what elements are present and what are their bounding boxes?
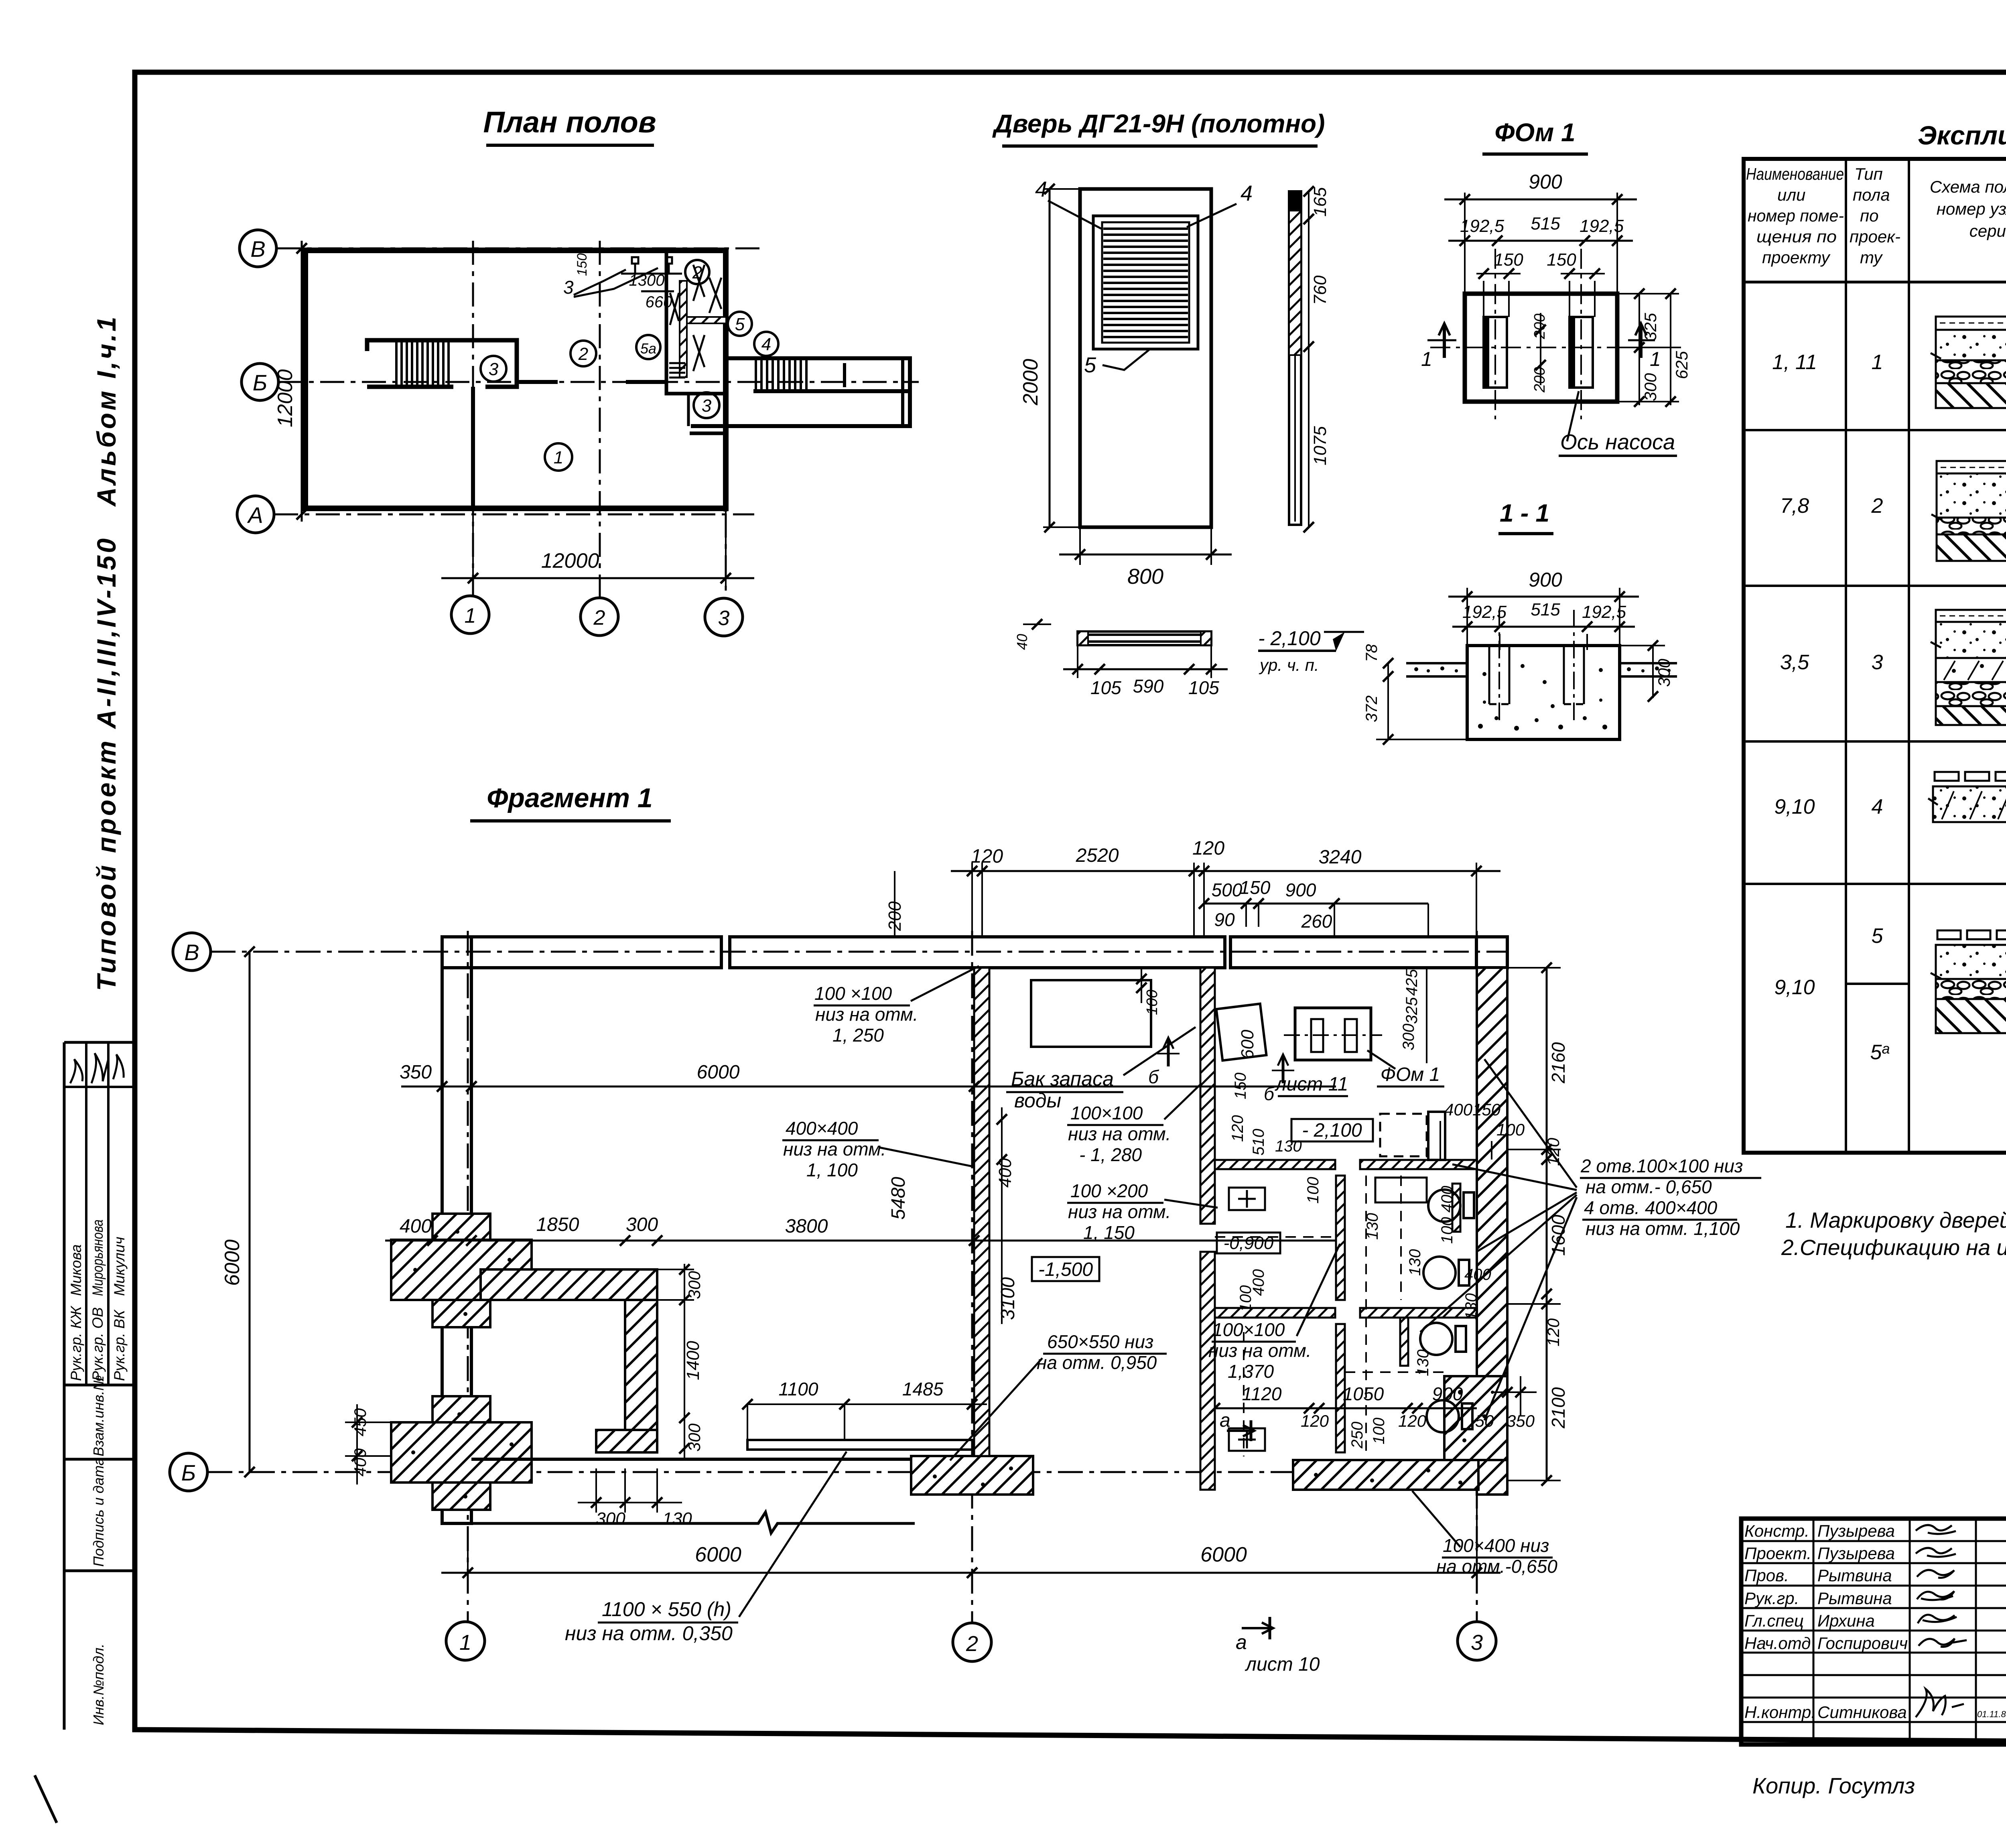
svg-text:В: В [184,940,199,965]
axis dash-dot lines [274,241,919,599]
left margin rotated project label [91,315,121,991]
svg-text:на отм. 0,950: на отм. 0,950 [1037,1352,1157,1373]
svg-text:3: 3 [489,359,499,379]
dims 1100 1485 [747,1403,987,1405]
svg-text:а: а [1236,1631,1247,1653]
svg-text:2: 2 [593,606,605,630]
louver panel [1093,216,1198,349]
svg-text:1, 11: 1, 11 [1772,351,1817,374]
svg-text:низ на отм.: низ на отм. [815,1004,918,1025]
second dim row 500 150 900 [1204,903,1428,905]
svg-text:проек-: проек- [1850,227,1900,246]
svg-text:6000: 6000 [697,1062,740,1083]
right extension corridor [691,358,910,426]
boxed level marks [1291,1119,1373,1141]
a -> list 10 [1242,1617,1273,1639]
svg-text:150: 150 [575,253,590,276]
svg-text:В: В [250,236,265,262]
schema row2 [1931,461,2006,561]
svg-text:1: 1 [554,448,563,467]
svg-text:90: 90 [1214,909,1235,930]
svg-text:Рук.гр. ВК: Рук.гр. ВК [111,1309,128,1381]
bottom dim 12000 [472,508,474,590]
sanitary partitions [1215,1160,1477,1452]
svg-text:ур. ч. п.: ур. ч. п. [1259,656,1319,674]
svg-text:а: а [1220,1410,1230,1431]
svg-text:800: 800 [1127,565,1163,589]
svg-text:105: 105 [1188,677,1219,698]
svg-text:400: 400 [400,1216,432,1237]
svg-text:100 ×100: 100 ×100 [814,983,892,1004]
svg-text:300: 300 [1641,373,1660,401]
column 2 wall [974,968,989,1456]
svg-text:4: 4 [1872,795,1883,818]
left vertical dim 6000 [249,952,251,1472]
dim 192.5 515 192.5 [1448,240,1633,242]
svg-text:Схема пола или: Схема пола или [1930,177,2006,196]
svg-text:1: 1 [465,604,476,628]
svg-text:120: 120 [1229,1115,1247,1142]
svg-text:6000: 6000 [695,1543,741,1566]
svg-text:Наименование: Наименование [1746,164,1844,183]
svg-text:Б: Б [253,370,267,395]
sanitary bottom band [1293,1460,1478,1490]
svg-text:1: 1 [1650,348,1661,370]
svg-text:- 2,100: - 2,100 [1302,1120,1362,1141]
bottom sill section [1078,632,1211,645]
signatures [1916,1525,1967,1717]
svg-text:-1,500: -1,500 [1038,1259,1093,1280]
pilaster cross lower [391,1396,532,1510]
svg-text:3: 3 [1872,651,1883,674]
svg-text:Рук.гр. КЖ: Рук.гр. КЖ [68,1306,84,1381]
svg-text:5480: 5480 [888,1177,909,1220]
svg-text:510: 510 [1250,1129,1267,1156]
svg-text:5: 5 [1084,353,1096,377]
svg-text:2000: 2000 [1019,359,1042,406]
svg-text:300: 300 [685,1271,704,1299]
svg-text:100: 100 [1237,1285,1255,1312]
svg-text:100: 100 [1370,1417,1388,1444]
svg-text:150: 150 [1494,250,1523,270]
svg-text:130: 130 [1364,1213,1381,1240]
svg-text:1050: 1050 [1343,1383,1384,1404]
svg-text:1,370: 1,370 [1228,1361,1274,1382]
svg-text:3800: 3800 [785,1216,828,1237]
tank Bak zapasa [1031,980,1151,1047]
svg-text:150: 150 [1240,877,1271,898]
svg-text:Взам.инв.№: Взам.инв.№ [90,1375,107,1456]
dims 300 130 below C-wall [595,1468,597,1513]
svg-text:пола: пола [1853,185,1890,204]
svg-text:низ на отм. 0,350: низ на отм. 0,350 [565,1622,733,1645]
svg-text:1300: 1300 [629,272,665,289]
svg-text:372: 372 [1363,695,1381,722]
svg-text:6000: 6000 [221,1239,244,1286]
side view [1289,191,1301,525]
svg-text:1: 1 [1421,348,1432,370]
dashed stall lines [1215,1176,1444,1456]
header texts [1746,164,2006,267]
axis circles [237,230,278,533]
svg-text:5: 5 [1872,924,1884,948]
svg-text:Рытвина: Рытвина [1817,1589,1892,1608]
svg-text:425: 425 [1403,969,1421,996]
section mark a inside [1227,1420,1254,1441]
pilaster cross upper [391,1214,532,1327]
svg-text:Тип: Тип [1854,164,1883,183]
svg-text:130: 130 [1275,1137,1302,1155]
svg-text:1, 100: 1, 100 [806,1160,858,1180]
stair room walls left [367,340,517,387]
svg-text:500: 500 [1212,879,1243,900]
svg-text:1 - 1: 1 - 1 [1500,500,1549,527]
svg-text:120: 120 [1192,838,1224,859]
left grid [1741,1519,2006,1744]
svg-text:100: 100 [1304,1177,1322,1204]
svg-text:515: 515 [1531,600,1560,619]
svg-text:Типовой проект А-II,III,IV-1: Типовой проект А-II,III,IV-150 [91,536,121,991]
interior wall x~3000 [1200,968,1215,1224]
svg-text:2520: 2520 [1076,845,1119,866]
svg-text:120: 120 [1398,1411,1427,1430]
svg-text:низ на отм.: низ на отм. [1068,1123,1171,1144]
svg-text:400×400: 400×400 [786,1118,858,1139]
paper corner mark bottom-left [35,1777,56,1822]
svg-text:130: 130 [1414,1349,1432,1376]
svg-text:120: 120 [1544,1137,1563,1166]
lower walls near B [471,1458,911,1461]
notes below table [1781,1208,2006,1260]
dim 800 [1079,527,1081,565]
svg-text:Пузырева: Пузырева [1817,1544,1895,1563]
svg-text:Проект.: Проект. [1744,1544,1811,1563]
svg-text:760: 760 [1310,275,1330,305]
svg-text:900: 900 [1529,569,1562,591]
svg-text:Рук.гр. ОВ: Рук.гр. ОВ [89,1307,106,1381]
left dims 78 372 [1387,663,1389,739]
svg-text:1400: 1400 [683,1341,703,1380]
svg-text:3: 3 [563,277,574,298]
svg-text:ФОм 1: ФОм 1 [1494,118,1575,147]
svg-text:2: 2 [692,263,702,282]
right vertical dim chain [1546,968,1548,1480]
svg-text:Микова: Микова [68,1244,84,1296]
left wall axis 1 [442,937,471,1523]
svg-text:Подпись и дата: Подпись и дата [90,1458,107,1567]
100x100 niz 1,370 [1208,1319,1311,1382]
toilets [1420,1190,1474,1432]
svg-text:7,8: 7,8 [1780,494,1809,518]
svg-text:2160: 2160 [1548,1042,1569,1084]
sanitary block top right [666,250,726,394]
slots [1484,317,1593,388]
svg-text:5: 5 [735,315,745,334]
svg-text:590: 590 [1133,676,1164,697]
column circles [446,1622,1496,1661]
svg-text:номер поме-: номер поме- [1748,206,1844,225]
right outer wall [1477,968,1507,1495]
schema row1 [1931,317,2006,408]
svg-text:Ось насоса: Ось насоса [1560,430,1675,454]
svg-text:100: 100 [1144,990,1161,1015]
svg-text:300: 300 [1400,1024,1417,1050]
svg-text:192,5: 192,5 [1460,216,1504,236]
door leaf [1080,189,1211,527]
svg-text:2100: 2100 [1548,1387,1569,1429]
svg-text:2: 2 [966,1632,978,1656]
svg-text:А: А [247,502,263,528]
left texts [1744,1521,2006,1722]
svg-text:Рытвина: Рытвина [1817,1566,1892,1585]
svg-text:300: 300 [626,1214,658,1235]
section marks 1-1 [1427,323,1655,358]
svg-text:лист 10: лист 10 [1245,1654,1320,1675]
svg-text:40: 40 [1014,634,1030,650]
svg-text:1075: 1075 [1310,426,1330,465]
svg-text:План полов: План полов [483,106,656,139]
dims right of C-wall: 300 1400 300 [684,1264,685,1460]
right multi-leader note [1580,1156,1743,1239]
grid [1744,159,2006,1153]
svg-text:250: 250 [1348,1422,1366,1449]
svg-text:900: 900 [1432,1383,1463,1404]
svg-text:Констр.: Констр. [1744,1521,1809,1540]
svg-text:130: 130 [1462,1293,1480,1320]
schema row3 [1931,610,2006,725]
dashed pit + block [1380,1114,1427,1156]
svg-text:3100: 3100 [997,1277,1019,1320]
svg-text:900: 900 [1285,879,1316,900]
section marks b [1157,1038,1294,1083]
svg-text:660: 660 [646,293,672,311]
slots dashed [1489,646,1584,704]
center lines [1430,249,1653,419]
svg-text:100 ×200: 100 ×200 [1070,1180,1148,1201]
svg-text:1850: 1850 [536,1214,579,1235]
bottom annotations [1752,1766,2006,1802]
svg-text:300: 300 [685,1423,704,1452]
svg-text:300: 300 [1655,658,1673,687]
svg-text:400: 400 [1464,1266,1491,1283]
svg-text:3240: 3240 [1319,847,1362,868]
svg-text:Нач.отд: Нач.отд [1744,1634,1811,1653]
room number circles [481,260,778,471]
svg-text:Микулич: Микулич [111,1237,128,1296]
main body [1465,294,1617,402]
bottom dims 1120 1050 900 [1215,1407,1477,1409]
svg-text:01.11.82: 01.11.82 [1977,1709,2006,1719]
schema row5 [1931,930,2006,1033]
svg-text:Госпирович: Госпирович [1817,1634,1908,1653]
svg-text:625: 625 [1672,351,1691,379]
svg-text:130: 130 [1406,1249,1424,1276]
svg-text:Дверь ДГ21-9Н (полотно): Дверь ДГ21-9Н (полотно) [992,109,1325,138]
anchors + small dims on top [574,257,682,297]
svg-text:серии: серии [1969,221,2006,240]
svg-text:4: 4 [1241,181,1253,205]
svg-text:12000: 12000 [274,369,297,427]
svg-text:325: 325 [1403,997,1421,1024]
svg-text:650×550 низ: 650×550 низ [1047,1331,1153,1352]
svg-text:Пузырева: Пузырева [1817,1521,1895,1540]
dim 2000 [1049,189,1051,527]
svg-text:2.Спецификацию на изделия зак: 2.Спецификацию на изделия закладные см. … [1781,1235,2006,1260]
axis circles [170,933,211,1491]
pump foundation plan [1295,1008,1371,1060]
top dim row 120 2520 120 3240 [971,863,973,931]
svg-text:192,5: 192,5 [1580,216,1624,236]
dim row 400 1850 300 3800 [385,1240,1336,1242]
side dims [1308,191,1310,527]
dims 150 150 [1476,273,1521,274]
svg-text:50: 50 [1475,1411,1494,1430]
svg-text:Экспликация пола: Экспликация пола [1918,120,2006,150]
svg-text:Рук.гр.: Рук.гр. [1744,1589,1799,1608]
svg-text:900: 900 [1529,171,1562,193]
svg-text:192,5: 192,5 [1582,602,1626,622]
svg-text:400150: 400150 [1444,1100,1501,1119]
svg-text:120: 120 [1544,1318,1563,1346]
svg-text:100: 100 [1496,1120,1525,1139]
svg-text:1600: 1600 [1548,1214,1569,1256]
svg-text:12000: 12000 [541,549,599,573]
svg-text:Ирхина: Ирхина [1817,1611,1875,1630]
svg-text:проекту: проекту [1762,248,1831,267]
svg-text:1120: 1120 [1242,1383,1282,1404]
svg-text:Фрагмент 1: Фрагмент 1 [487,783,652,813]
svg-text:120: 120 [971,846,1003,867]
svg-text:номер узла по: номер узла по [1937,199,2006,218]
column circles [451,596,743,636]
svg-text:150: 150 [1547,250,1576,270]
svg-text:100×100: 100×100 [1212,1319,1285,1340]
internal top dims 350 6000 [401,1086,1336,1088]
svg-text:низ на отм.: низ на отм. [1208,1340,1311,1361]
left inventory table [64,1042,132,1730]
body with concrete dots [1467,646,1620,739]
svg-text:2: 2 [578,344,588,364]
svg-text:щения по: щения по [1756,227,1837,246]
svg-text:9,10: 9,10 [1774,976,1815,999]
svg-text:Н.контр.: Н.контр. [1744,1703,1816,1722]
svg-text:1100: 1100 [779,1379,818,1399]
signatures squiggles in left table [70,1053,124,1083]
svg-text:4 отв. 400×400: 4 отв. 400×400 [1584,1197,1718,1218]
col1/col2/col5 values [1772,351,2006,1064]
svg-text:1: 1 [1872,351,1883,374]
svg-text:300: 300 [596,1509,625,1529]
stair hatch [396,340,449,387]
svg-text:515: 515 [1531,214,1560,234]
svg-text:низ на отм. 1,100: низ на отм. 1,100 [1586,1218,1740,1239]
partition below Б at col1 [471,387,475,508]
svg-text:130: 130 [662,1509,692,1529]
svg-text:- 2,100: - 2,100 [1258,627,1321,650]
svg-text:Мирорьянова: Мирорьянова [89,1219,106,1296]
svg-text:600: 600 [1238,1030,1257,1059]
bottom dim 6000 6000 [467,1529,469,1589]
schema row4 [1928,772,2006,822]
building outline [305,250,726,508]
svg-text:2 отв.100×100 низ: 2 отв.100×100 низ [1580,1156,1743,1176]
svg-text:ФОм 1: ФОм 1 [1381,1064,1440,1085]
svg-text:105: 105 [1090,677,1121,698]
dims [1466,588,1468,646]
1100x550 label [565,1598,733,1645]
svg-text:1: 1 [459,1631,471,1655]
svg-text:или: или [1777,185,1805,204]
svg-text:Б: Б [181,1460,196,1485]
svg-text:78: 78 [1363,644,1381,662]
svg-text:100×100: 100×100 [1070,1103,1143,1123]
C-shaped interior foundation wall [481,1269,657,1452]
svg-text:Альбом I,ч.1: Альбом I,ч.1 [91,315,121,507]
right dim 300 [1652,646,1654,698]
svg-text:9,10: 9,10 [1774,795,1815,818]
svg-text:лист 11: лист 11 [1275,1074,1348,1095]
svg-text:по: по [1860,206,1878,225]
left labels with leaders [783,983,1171,1373]
svg-text:165: 165 [1310,187,1330,217]
right dims 325 300 625 [1617,347,1681,348]
svg-text:5а: 5а [1870,1040,1890,1064]
svg-text:325: 325 [1641,313,1660,341]
concrete block right bottom [1444,1376,1507,1460]
dim 900 [1464,193,1466,294]
svg-text:- 1, 280: - 1, 280 [1079,1144,1142,1165]
vertical dim 12000 [301,241,303,522]
svg-text:3: 3 [702,396,712,416]
small height mark left of sill [1023,623,1051,625]
svg-text:4: 4 [761,335,771,354]
svg-text:Инв.№подл.: Инв.№подл. [90,1644,107,1725]
sinks / equipment small [1229,1178,1427,1451]
svg-text:3: 3 [718,607,730,630]
svg-text:3: 3 [1471,1631,1483,1655]
svg-text:1100 × 550 (h): 1100 × 550 (h) [602,1598,731,1621]
svg-text:ту: ту [1860,248,1883,267]
side ledges (floor slabs) [1406,663,1677,676]
svg-text:1, 250: 1, 250 [832,1025,884,1046]
svg-text:260: 260 [1301,911,1332,932]
svg-text:Ситникова: Ситникова [1817,1703,1907,1722]
svg-text:6000: 6000 [1200,1543,1247,1566]
svg-text:б: б [1148,1066,1159,1087]
fragment dims & labels [345,838,1761,1675]
svg-text:3,5: 3,5 [1780,651,1809,674]
svg-text:1, 150: 1, 150 [1083,1222,1135,1243]
svg-text:-0,900: -0,900 [1224,1233,1274,1253]
svg-text:100 400: 100 400 [1438,1186,1456,1244]
svg-text:1485: 1485 [902,1379,944,1399]
svg-text:Пров.: Пров. [1744,1566,1789,1585]
svg-text:1. Маркировку дверей и перемыч: 1. Маркировку дверей и перемычек см. на … [1785,1208,2006,1233]
svg-text:2: 2 [1871,494,1883,518]
svg-text:Копир. Госутлз: Копир. Госутлз [1752,1773,1915,1798]
100x400 niz na otm -0.650 [1436,1535,1557,1577]
top wall along V [442,937,1507,968]
svg-text:на отм.- 0,650: на отм.- 0,650 [1586,1176,1712,1197]
svg-text:низ на отм.: низ на отм. [1068,1201,1171,1222]
svg-text:низ на отм.: низ на отм. [783,1139,886,1160]
svg-text:5а: 5а [640,340,656,357]
svg-text:Гл.спец: Гл.спец [1744,1611,1804,1630]
pump room: tank tilted [1216,1004,1267,1060]
svg-text:350: 350 [400,1062,432,1083]
svg-text:120: 120 [1301,1411,1329,1430]
sill dims [1077,645,1078,678]
